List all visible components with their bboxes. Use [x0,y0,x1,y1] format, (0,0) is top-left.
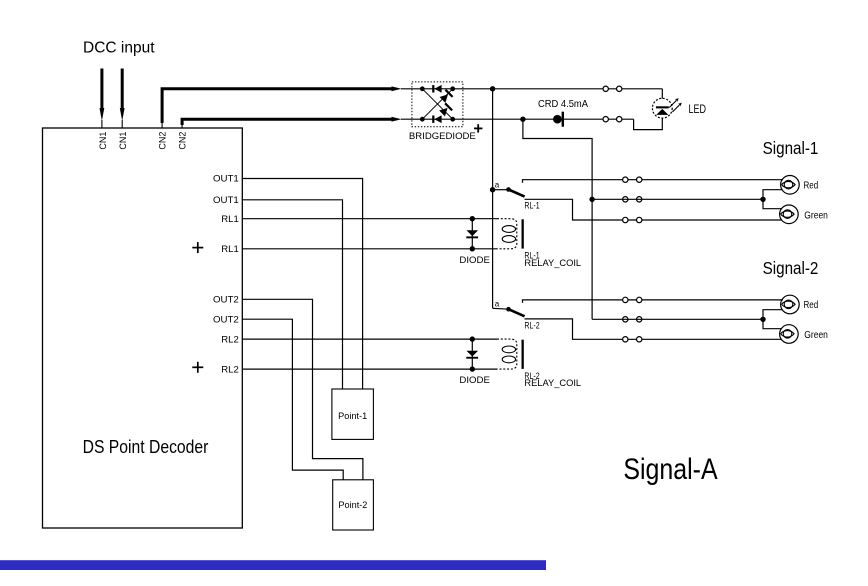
svg-text:Signal-A: Signal-A [623,453,717,486]
svg-text:RL-2: RL-2 [524,320,539,331]
svg-text:Signal-1: Signal-1 [763,138,819,158]
svg-text:Signal-2: Signal-2 [763,258,819,278]
svg-text:DIODE: DIODE [459,375,490,386]
svg-text:a: a [495,181,500,190]
svg-text:DCC input: DCC input [83,40,155,57]
svg-text:CN1: CN1 [97,132,108,150]
svg-text:RL-1: RL-1 [524,201,539,212]
svg-text:OUT2: OUT2 [213,294,239,305]
svg-text:RL2: RL2 [221,333,239,344]
svg-text:BRIDGEDIODE: BRIDGEDIODE [409,131,476,141]
svg-text:Point-2: Point-2 [338,500,367,510]
svg-text:RELAY_COIL: RELAY_COIL [524,258,581,269]
svg-text:OUT1: OUT1 [213,194,239,205]
svg-text:OUT2: OUT2 [213,313,239,324]
svg-text:CRD 4.5mA: CRD 4.5mA [538,99,588,110]
svg-text:RELAY_COIL: RELAY_COIL [524,378,581,389]
svg-text:Green: Green [804,330,828,341]
svg-text:CN1: CN1 [117,132,128,150]
svg-text:RL2: RL2 [221,363,239,374]
svg-text:RL1: RL1 [221,243,239,254]
svg-text:DS Point Decoder: DS Point Decoder [83,437,209,457]
svg-text:Red: Red [804,300,819,311]
svg-text:a: a [495,299,500,308]
svg-text:CN2: CN2 [176,132,187,150]
svg-text:Point-1: Point-1 [338,411,367,421]
svg-text:RL1: RL1 [221,213,239,224]
svg-text:CN2: CN2 [157,132,168,150]
svg-text:LED: LED [689,102,707,116]
svg-text:Red: Red [804,180,819,191]
svg-text:DIODE: DIODE [459,255,490,266]
svg-text:Green: Green [804,210,828,221]
svg-text:OUT1: OUT1 [213,173,239,184]
